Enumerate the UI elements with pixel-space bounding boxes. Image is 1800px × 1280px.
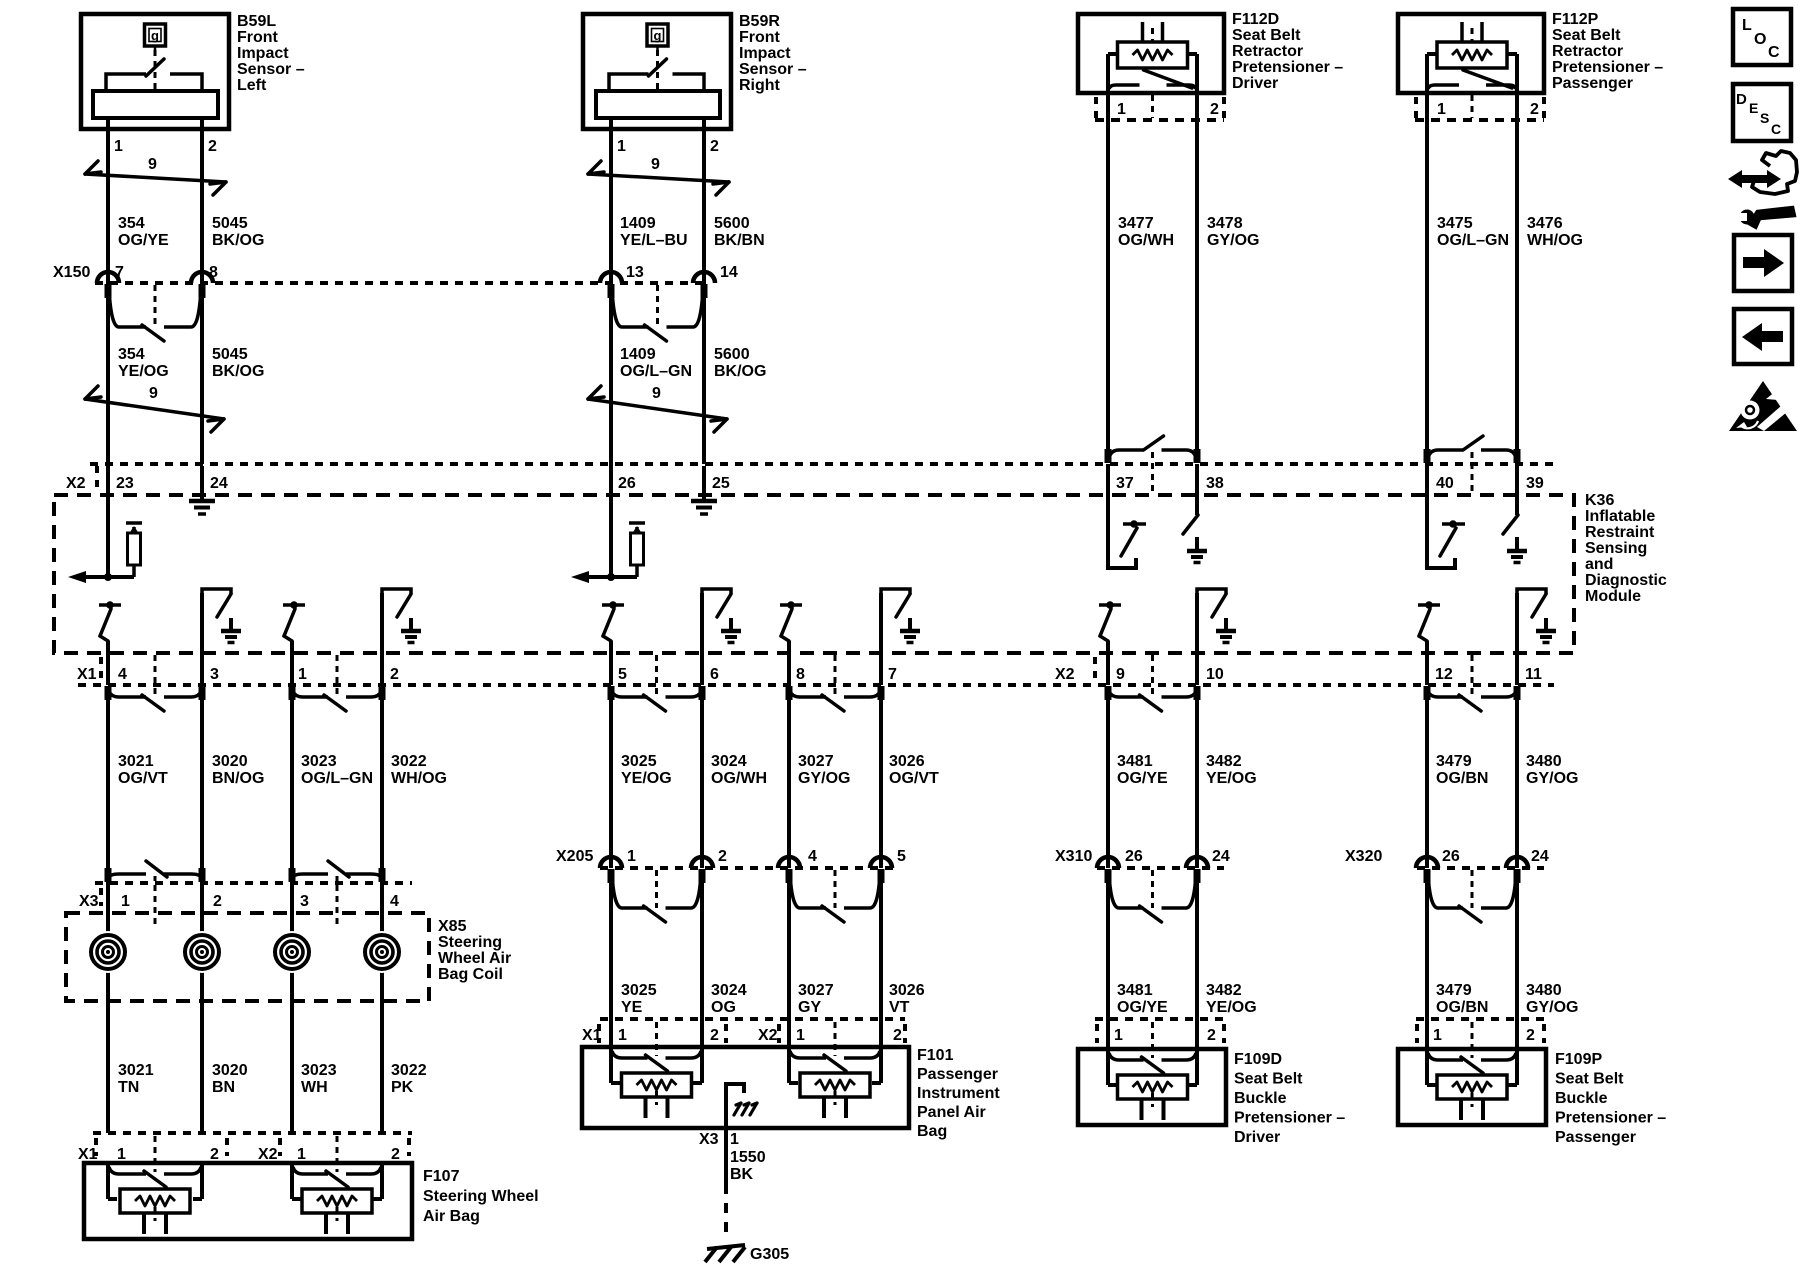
wire 3479 OG/BN lower xyxy=(1425,880,1429,1049)
svg-text:L: L xyxy=(1742,17,1752,34)
X205 pin 2 xyxy=(691,857,713,868)
svg-text:Pretensioner –: Pretensioner – xyxy=(1234,1110,1345,1127)
module K36 Inflatable Restraint Sensing and Diagnostic Module xyxy=(54,495,1574,653)
svg-text:Seat Belt: Seat Belt xyxy=(1234,1071,1303,1088)
icon DESC box xyxy=(1733,84,1791,141)
svg-text:5: 5 xyxy=(897,848,906,865)
connector X1/X2 line of F101 xyxy=(600,1017,905,1021)
svg-text:2: 2 xyxy=(1526,1027,1535,1044)
X1/X2 shorting bar pair 789-881 xyxy=(790,691,826,697)
K36 driver symbol above X1 pin 12 xyxy=(1418,603,1440,607)
svg-text:WH/OG: WH/OG xyxy=(1527,232,1583,249)
svg-text:X320: X320 xyxy=(1345,848,1382,865)
X310 pin 26 xyxy=(1097,857,1119,868)
K36 wire to X1 pin 8 xyxy=(787,641,791,685)
svg-text:YE/OG: YE/OG xyxy=(1206,999,1257,1016)
svg-text:Sensing: Sensing xyxy=(1585,540,1647,557)
svg-text:2: 2 xyxy=(210,1146,219,1163)
svg-text:5600: 5600 xyxy=(714,215,750,232)
svg-text:6: 6 xyxy=(710,666,719,683)
svg-text:Diagnostic: Diagnostic xyxy=(1585,572,1667,589)
svg-text:Steering: Steering xyxy=(438,934,502,951)
svg-text:1: 1 xyxy=(796,1027,805,1044)
svg-text:Buckle: Buckle xyxy=(1555,1090,1608,1107)
svg-text:1409: 1409 xyxy=(620,215,656,232)
ground at K36 pin 24 xyxy=(200,466,204,501)
X1/X2 shorting bar pair 1427-1517 xyxy=(1428,691,1463,697)
connector line of F109D xyxy=(1095,1017,1226,1021)
seat belt retractor pretensioner F112P xyxy=(1398,14,1544,93)
svg-text:F109D: F109D xyxy=(1234,1051,1282,1068)
svg-text:Bag: Bag xyxy=(917,1123,947,1140)
wire 3025 YE/OG xyxy=(609,697,613,868)
svg-text:3: 3 xyxy=(210,666,219,683)
svg-text:14: 14 xyxy=(720,264,738,281)
svg-text:GY: GY xyxy=(798,999,821,1016)
svg-text:OG/L–GN: OG/L–GN xyxy=(301,770,373,787)
svg-text:Left: Left xyxy=(237,77,267,94)
svg-text:YE: YE xyxy=(621,999,643,1016)
retractor shorting bar driver pair xyxy=(1109,450,1144,458)
svg-text:E: E xyxy=(1749,100,1758,116)
ground G305 xyxy=(707,1245,745,1249)
wire 3026 VT xyxy=(879,880,883,1048)
F107 squib 2 xyxy=(293,1167,328,1174)
svg-text:9: 9 xyxy=(148,156,157,173)
wire 5600 BK/BN from B59R pin 2 xyxy=(702,118,706,283)
K36 switch to ground pin 39 xyxy=(1515,464,1519,515)
svg-text:g: g xyxy=(151,28,159,43)
ground wire dashed to G305 xyxy=(724,1184,728,1241)
svg-text:1: 1 xyxy=(117,1146,126,1163)
svg-text:3024: 3024 xyxy=(711,982,747,999)
svg-text:Module: Module xyxy=(1585,588,1641,605)
wire 3481 OG/YE xyxy=(1106,697,1110,868)
svg-text:26: 26 xyxy=(1125,848,1143,865)
svg-text:YE/OG: YE/OG xyxy=(118,363,169,380)
svg-text:3478: 3478 xyxy=(1207,215,1243,232)
wire 3024 OG/WH xyxy=(700,697,704,868)
svg-text:9: 9 xyxy=(651,156,660,173)
K36 switch-to-ground symbol above X1 pin 11 xyxy=(1517,589,1546,594)
twisted pair marker 9 (B59R) xyxy=(588,174,729,182)
X1/X2 shorting bar pair 1108-1197 xyxy=(1109,691,1144,697)
svg-text:4: 4 xyxy=(118,666,127,683)
svg-text:354: 354 xyxy=(118,215,145,232)
svg-text:8: 8 xyxy=(796,666,805,683)
svg-text:K36: K36 xyxy=(1585,492,1614,509)
svg-text:Seat Belt: Seat Belt xyxy=(1555,1071,1624,1088)
svg-text:X2: X2 xyxy=(758,1027,778,1044)
wire 3477 OG/WH from F112D pin 1 xyxy=(1106,95,1110,449)
wire 3023 OG/L-GN xyxy=(290,697,294,883)
K36 sensor input wire 26 xyxy=(609,464,613,577)
svg-text:2: 2 xyxy=(710,138,719,155)
svg-text:3476: 3476 xyxy=(1527,215,1563,232)
X150 pin 7 xyxy=(97,272,119,283)
svg-text:X2: X2 xyxy=(258,1146,278,1163)
X205 pin 5 xyxy=(870,857,892,868)
connector X310 line xyxy=(1097,866,1224,870)
svg-text:Pretensioner –: Pretensioner – xyxy=(1232,59,1343,76)
svg-text:TN: TN xyxy=(118,1079,139,1096)
svg-text:Retractor: Retractor xyxy=(1552,43,1623,60)
wire 3476 WH/OG from F112P pin 2 xyxy=(1515,95,1519,449)
K36 driver symbol above X1 pin 8 xyxy=(780,603,802,607)
svg-text:BK/OG: BK/OG xyxy=(212,363,264,380)
svg-text:3479: 3479 xyxy=(1436,753,1472,770)
svg-text:Wheel Air: Wheel Air xyxy=(438,950,511,967)
svg-text:VT: VT xyxy=(889,999,910,1016)
svg-text:YE/L–BU: YE/L–BU xyxy=(620,232,688,249)
connector X3 line xyxy=(95,881,412,885)
svg-text:GY/OG: GY/OG xyxy=(1207,232,1259,249)
clockspring coil 1 xyxy=(87,931,129,973)
svg-text:C: C xyxy=(1768,44,1780,61)
svg-text:2: 2 xyxy=(391,1146,400,1163)
svg-text:3025: 3025 xyxy=(621,982,657,999)
svg-text:OG/VT: OG/VT xyxy=(118,770,168,787)
svg-text:WH/OG: WH/OG xyxy=(391,770,447,787)
K36 wire to X1 pin 10 xyxy=(1195,593,1199,685)
wire 354 OG/YE from B59L pin 1 xyxy=(106,118,110,283)
K36 driver symbol above X1 pin 1 xyxy=(283,603,305,607)
F101 squib 2 xyxy=(790,1051,826,1058)
K36 wire to X1 pin 2 xyxy=(380,593,384,685)
svg-text:5600: 5600 xyxy=(714,346,750,363)
retractor shorting bar passenger pair xyxy=(1428,450,1463,458)
svg-text:2: 2 xyxy=(1207,1027,1216,1044)
icon back arrow box xyxy=(1734,309,1792,364)
connector X2 line of K36 xyxy=(90,462,1554,466)
svg-text:F101: F101 xyxy=(917,1047,954,1064)
svg-text:37: 37 xyxy=(1116,475,1134,492)
svg-text:2: 2 xyxy=(213,893,222,910)
svg-text:1: 1 xyxy=(298,666,307,683)
svg-text:4: 4 xyxy=(390,893,399,910)
K36 wire to X1 pin 3 xyxy=(200,593,204,685)
svg-text:354: 354 xyxy=(118,346,145,363)
K36 wire to X1 pin 4 xyxy=(106,641,110,685)
svg-text:OG/YE: OG/YE xyxy=(118,232,169,249)
svg-text:39: 39 xyxy=(1526,475,1544,492)
svg-text:8: 8 xyxy=(209,264,218,281)
svg-text:BN: BN xyxy=(212,1079,235,1096)
wire 1409 OG/L-GN xyxy=(609,283,613,464)
svg-text:12: 12 xyxy=(1435,666,1453,683)
impact sensor B59L xyxy=(81,14,229,129)
K36 wire to X1 pin 5 xyxy=(609,641,613,685)
svg-text:G305: G305 xyxy=(750,1246,789,1263)
K36 driver symbol above X1 pin 9 xyxy=(1099,603,1121,607)
svg-text:GY/OG: GY/OG xyxy=(798,770,850,787)
svg-text:OG/YE: OG/YE xyxy=(1117,770,1168,787)
X1/X2 shorting bar pair 611-702 xyxy=(612,691,648,697)
steering wheel air bag F107 box xyxy=(84,1163,412,1239)
svg-text:2: 2 xyxy=(390,666,399,683)
F107 squib 1 xyxy=(109,1167,146,1174)
svg-text:9: 9 xyxy=(1116,666,1125,683)
svg-text:1: 1 xyxy=(114,138,123,155)
svg-text:Passenger: Passenger xyxy=(1555,1129,1636,1146)
F112P connector pins 1 2 xyxy=(1414,97,1418,120)
svg-text:1: 1 xyxy=(1117,101,1126,118)
F101 squib 1 xyxy=(612,1051,648,1058)
svg-text:Steering Wheel: Steering Wheel xyxy=(423,1188,539,1205)
clockspring coil 4 xyxy=(361,931,403,973)
connector X205 line xyxy=(600,866,898,870)
wire 5600 BK/OG lower xyxy=(702,283,706,464)
coil wire 2 xyxy=(200,883,204,1133)
K36 driver symbol above X1 pin 4 xyxy=(99,603,121,607)
K36 wire to X1 pin 6 xyxy=(700,593,704,685)
svg-text:F112P: F112P xyxy=(1552,11,1599,28)
svg-text:3026: 3026 xyxy=(889,982,925,999)
svg-text:26: 26 xyxy=(618,475,636,492)
svg-text:3026: 3026 xyxy=(889,753,925,770)
svg-text:5: 5 xyxy=(618,666,627,683)
svg-text:1: 1 xyxy=(121,893,130,910)
svg-text:F109P: F109P xyxy=(1555,1051,1602,1068)
svg-text:BK: BK xyxy=(730,1166,754,1183)
svg-text:3480: 3480 xyxy=(1526,753,1562,770)
K36 switch-to-ground symbol above X1 pin 6 xyxy=(702,589,731,594)
svg-text:2: 2 xyxy=(208,138,217,155)
seat belt buckle pretensioner F109D box xyxy=(1078,1049,1226,1125)
wire 3027 GY/OG xyxy=(787,697,791,868)
wire 3478 GY/OG from F112D pin 2 xyxy=(1195,95,1199,449)
svg-text:25: 25 xyxy=(712,475,730,492)
svg-text:3475: 3475 xyxy=(1437,215,1473,232)
coil wire 3 xyxy=(290,883,294,1133)
svg-text:3020: 3020 xyxy=(212,753,248,770)
X3 shorting bar pair 1-2 xyxy=(109,874,146,877)
svg-text:1: 1 xyxy=(618,1027,627,1044)
svg-text:Inflatable: Inflatable xyxy=(1585,508,1655,525)
connector X1/X2 line of F107 xyxy=(93,1131,412,1135)
svg-text:3025: 3025 xyxy=(621,753,657,770)
coil wire 1 xyxy=(106,883,110,1133)
svg-text:OG/VT: OG/VT xyxy=(889,770,939,787)
svg-text:2: 2 xyxy=(1530,101,1539,118)
svg-text:Seat Belt: Seat Belt xyxy=(1552,27,1621,44)
icon service double arrow with hand and wrench xyxy=(1728,170,1781,188)
svg-text:S: S xyxy=(1760,110,1769,126)
svg-text:13: 13 xyxy=(626,264,644,281)
icon airbag warning triangle xyxy=(1729,381,1797,431)
ground at K36 pin 25 xyxy=(702,466,706,501)
svg-text:Bag Coil: Bag Coil xyxy=(438,966,503,983)
svg-text:Pretensioner –: Pretensioner – xyxy=(1552,59,1663,76)
K36 switch-to-ground symbol above X1 pin 2 xyxy=(382,589,411,594)
clockspring coil 2 xyxy=(181,931,223,973)
X150 pin 13 xyxy=(600,272,622,283)
svg-text:3021: 3021 xyxy=(118,1062,154,1079)
X1/X2 shorting bar pair 292-382 xyxy=(293,691,328,697)
passenger instrument panel air bag F101 box xyxy=(582,1047,909,1128)
svg-text:3024: 3024 xyxy=(711,753,747,770)
svg-text:1: 1 xyxy=(297,1146,306,1163)
svg-text:3020: 3020 xyxy=(212,1062,248,1079)
svg-text:OG/L–GN: OG/L–GN xyxy=(620,363,692,380)
wire 3027 GY xyxy=(787,880,791,1048)
impact sensor B59R xyxy=(583,14,731,129)
svg-text:24: 24 xyxy=(210,475,228,492)
svg-text:3477: 3477 xyxy=(1118,215,1154,232)
svg-text:2: 2 xyxy=(893,1027,902,1044)
svg-text:7: 7 xyxy=(115,264,124,281)
svg-text:Front: Front xyxy=(237,29,279,46)
coil wire 4 xyxy=(380,883,384,1133)
clockspring coil 3 xyxy=(271,931,313,973)
svg-text:40: 40 xyxy=(1436,475,1454,492)
svg-text:F112D: F112D xyxy=(1232,11,1279,28)
svg-text:1409: 1409 xyxy=(620,346,656,363)
svg-text:Air Bag: Air Bag xyxy=(423,1208,480,1225)
svg-text:BN/OG: BN/OG xyxy=(212,770,264,787)
svg-text:2: 2 xyxy=(718,848,727,865)
svg-text:4: 4 xyxy=(808,848,817,865)
F109D squib xyxy=(1109,1053,1144,1060)
svg-text:3480: 3480 xyxy=(1526,982,1562,999)
X205 pin 4 xyxy=(778,857,800,868)
svg-text:9: 9 xyxy=(652,385,661,402)
svg-text:BK/BN: BK/BN xyxy=(714,232,765,249)
K36 bias node and resistor for B59L xyxy=(80,575,134,579)
K36 switch-to-ground symbol above X1 pin 10 xyxy=(1197,589,1226,594)
svg-text:Sensor –: Sensor – xyxy=(739,61,807,78)
twisted pair marker 9 lower (B59L) xyxy=(85,399,224,419)
svg-text:X150: X150 xyxy=(53,264,90,281)
svg-text:g: g xyxy=(654,28,662,43)
svg-text:3023: 3023 xyxy=(301,753,337,770)
connector X150 line xyxy=(95,281,709,285)
svg-text:23: 23 xyxy=(116,475,134,492)
svg-text:X3: X3 xyxy=(79,893,99,910)
svg-text:3023: 3023 xyxy=(301,1062,337,1079)
svg-text:B59L: B59L xyxy=(237,13,276,30)
svg-text:PK: PK xyxy=(391,1079,414,1096)
svg-text:OG/WH: OG/WH xyxy=(1118,232,1174,249)
icon forward arrow box xyxy=(1734,235,1792,291)
connector line of F109P xyxy=(1416,1017,1546,1021)
K36 wire to X1 pin 11 xyxy=(1515,593,1519,685)
svg-text:3: 3 xyxy=(300,893,309,910)
svg-text:O: O xyxy=(1754,31,1766,48)
K36 bias node and resistor for B59R xyxy=(583,575,637,579)
wire 3026 OG/VT xyxy=(879,697,883,868)
K36 switch-to-ground symbol above X1 pin 7 xyxy=(881,589,910,594)
svg-text:1: 1 xyxy=(730,1131,739,1148)
seat belt buckle pretensioner F109P box xyxy=(1398,1049,1546,1125)
wire 3482 YE/OG xyxy=(1195,697,1199,868)
K36 pretensioner driver circuit pin 40 xyxy=(1427,464,1455,568)
twisted pair marker 9 lower (B59R) xyxy=(588,399,727,419)
svg-text:OG/L–GN: OG/L–GN xyxy=(1437,232,1509,249)
wire 1409 YE/L-BU from B59R pin 1 xyxy=(609,118,613,283)
svg-text:2: 2 xyxy=(710,1027,719,1044)
F109P squib xyxy=(1428,1053,1463,1060)
svg-text:3027: 3027 xyxy=(798,753,834,770)
K36 sensor input wire 23 xyxy=(106,464,110,577)
svg-text:X205: X205 xyxy=(556,848,593,865)
connector X320 line xyxy=(1417,866,1544,870)
K36 switch to ground pin 38 xyxy=(1195,464,1199,515)
wire 3481 OG/YE lower xyxy=(1106,880,1110,1049)
svg-text:Right: Right xyxy=(739,77,781,94)
svg-text:OG/BN: OG/BN xyxy=(1436,999,1488,1016)
F101 case ground wire xyxy=(726,1084,744,1184)
wire 3482 YE/OG lower xyxy=(1195,880,1199,1049)
svg-text:10: 10 xyxy=(1206,666,1224,683)
svg-text:3482: 3482 xyxy=(1206,753,1242,770)
K36 driver symbol above X1 pin 5 xyxy=(602,603,624,607)
svg-text:Sensor –: Sensor – xyxy=(237,61,305,78)
svg-text:Seat Belt: Seat Belt xyxy=(1232,27,1301,44)
wire 3480 GY/OG xyxy=(1515,697,1519,868)
svg-text:7: 7 xyxy=(888,666,897,683)
svg-text:Instrument: Instrument xyxy=(917,1085,1000,1102)
K36 wire to X1 pin 9 xyxy=(1106,641,1110,685)
X3 pair separator dashes xyxy=(154,885,157,928)
svg-text:X2: X2 xyxy=(1055,666,1075,683)
steering wheel air bag coil X85 box xyxy=(66,913,429,1001)
svg-text:X310: X310 xyxy=(1055,848,1092,865)
svg-text:Front: Front xyxy=(739,29,781,46)
svg-text:X85: X85 xyxy=(438,918,467,935)
wire 354 YE/OG xyxy=(106,283,110,464)
seat belt retractor pretensioner F112D xyxy=(1078,14,1224,93)
K36 wire to X1 pin 12 xyxy=(1425,641,1429,685)
svg-text:GY/OG: GY/OG xyxy=(1526,770,1578,787)
wire 3475 OG/L-GN from F112P pin 1 xyxy=(1425,95,1429,449)
icon LOC box xyxy=(1733,9,1791,65)
svg-text:BK/OG: BK/OG xyxy=(714,363,766,380)
svg-text:B59R: B59R xyxy=(739,13,780,30)
svg-text:3479: 3479 xyxy=(1436,982,1472,999)
svg-text:C: C xyxy=(1771,121,1781,137)
X150 shorting bar left pair xyxy=(109,289,146,327)
svg-text:YE/OG: YE/OG xyxy=(1206,770,1257,787)
wire 3024 OG xyxy=(700,880,704,1048)
svg-text:2: 2 xyxy=(1210,101,1219,118)
svg-text:Pretensioner –: Pretensioner – xyxy=(1555,1110,1666,1127)
svg-text:X2: X2 xyxy=(66,475,86,492)
svg-text:D: D xyxy=(1736,91,1747,108)
X150 pin 8 xyxy=(191,272,213,283)
svg-text:9: 9 xyxy=(149,385,158,402)
svg-text:1: 1 xyxy=(627,848,636,865)
svg-text:OG: OG xyxy=(711,999,736,1016)
svg-text:Passenger: Passenger xyxy=(917,1066,998,1083)
svg-text:OG/WH: OG/WH xyxy=(711,770,767,787)
X150 shorting bar right pair xyxy=(612,289,649,327)
svg-text:BK/OG: BK/OG xyxy=(212,232,264,249)
svg-text:Impact: Impact xyxy=(739,45,791,62)
svg-text:Impact: Impact xyxy=(237,45,289,62)
X320 shorting bar xyxy=(1428,874,1463,908)
svg-text:38: 38 xyxy=(1206,475,1224,492)
svg-text:1: 1 xyxy=(617,138,626,155)
svg-text:3481: 3481 xyxy=(1117,982,1153,999)
wire 5045 BK/OG lower xyxy=(200,283,204,464)
svg-text:Driver: Driver xyxy=(1234,1129,1280,1146)
svg-text:X3: X3 xyxy=(699,1131,719,1148)
svg-text:5045: 5045 xyxy=(212,346,248,363)
svg-text:1: 1 xyxy=(1114,1027,1123,1044)
svg-text:24: 24 xyxy=(1531,848,1549,865)
K36 wire to X1 pin 7 xyxy=(879,593,883,685)
